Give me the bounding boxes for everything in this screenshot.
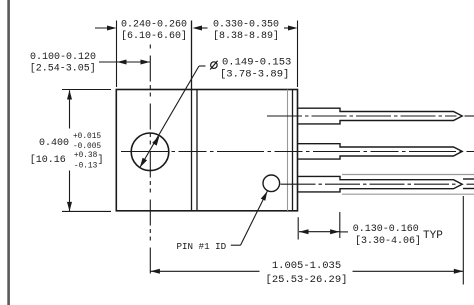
svg-text:-0.13: -0.13 (74, 162, 98, 170)
dim 0.100-0.120 dimension line and arrows (99, 60, 150, 65)
svg-text:0.240-0.260: 0.240-0.260 (121, 20, 187, 31)
lead 3 (bottom) outline (298, 176, 463, 192)
dim 0.400 extension line bottom (62, 210, 111, 212)
dim text 0.240-0.260 (121, 20, 187, 43)
svg-text:[6.10-6.60]: [6.10-6.60] (121, 30, 187, 42)
svg-text:TYP: TYP (423, 230, 443, 242)
body outline (TO-220 package) (116, 90, 297, 211)
svg-text:1.005-1.035: 1.005-1.035 (272, 260, 341, 272)
lead 3 centerline (281, 183, 474, 185)
horizontal centerline through hole and middle lead (121, 151, 474, 153)
dim text 0.100-0.120 (30, 52, 96, 74)
body right chamfer line (grey) (287, 90, 289, 211)
svg-text:[3.30-4.06]: [3.30-4.06] (355, 235, 421, 247)
svg-text:0.100-0.120: 0.100-0.120 (30, 52, 96, 63)
dim 0.330-0.350 right arrow (284, 26, 298, 31)
svg-text:+0.38: +0.38 (74, 152, 98, 160)
tab-to-body seam line 2 (196, 90, 198, 211)
svg-text:[25.53-26.29]: [25.53-26.29] (266, 274, 348, 286)
dim 0.130-0.160 extension line right (339, 212, 341, 238)
svg-text:0.400: 0.400 (39, 138, 69, 149)
dim 1.005-1.035 dimension line with arrows (150, 269, 463, 274)
dim 0.130-0.160 dimension line with arrows and leader (299, 229, 348, 234)
pin 1 ID leader line (231, 191, 267, 245)
svg-text:[10.16: [10.16 (30, 154, 66, 166)
lead 3 uncut edge continuation right of tip (463, 179, 474, 189)
svg-text:0.149-0.153: 0.149-0.153 (222, 56, 291, 68)
diameter symbol (210, 61, 217, 70)
page border left edge (7, 0, 10, 305)
dim 0.400 dimension line with arrows (67, 90, 72, 211)
svg-text:[2.54-3.05]: [2.54-3.05] (30, 63, 96, 75)
dim 0.240-0.260 extension line left (116, 21, 118, 88)
lead 2 (middle) outline (298, 144, 463, 159)
lead 1 (top) outline (298, 108, 463, 124)
tab-to-body seam line 1 (191, 21, 193, 211)
dim text diameter 0.149-0.153 (220, 56, 291, 80)
dim 0.330-0.350 extension line right (297, 21, 299, 88)
hole diameter leader line (140, 66, 206, 168)
body right inner edge line (292, 90, 294, 211)
pin 1 ID circle (263, 175, 280, 192)
svg-text:-0.005: -0.005 (73, 143, 101, 151)
svg-text:PIN #1 ID: PIN #1 ID (177, 241, 227, 252)
dim 0.400 extension line top (62, 89, 111, 91)
dim 0.130-0.160 extension line left (297, 217, 299, 239)
lead 1 centerline (267, 115, 474, 117)
dim 0.240-0.260 right arrow (193, 26, 208, 31)
dim text 0.400 with tolerances (30, 133, 104, 171)
lead 3 phantom uncut outline (grey) (342, 175, 474, 195)
dim 1.005-1.035 extension line right (462, 196, 464, 285)
svg-text:[3.78-3.89]: [3.78-3.89] (220, 68, 289, 80)
svg-text:0.130-0.160: 0.130-0.160 (353, 224, 419, 235)
dim 0.240-0.260 left arrow (95, 26, 117, 31)
label PIN #1 ID (177, 241, 227, 252)
svg-text:+0.015: +0.015 (73, 133, 101, 141)
dim text 0.130-0.160 TYP (353, 224, 443, 247)
hole vertical centerline (149, 45, 151, 277)
dim text 1.005-1.035 (266, 260, 348, 286)
dim text 0.330-0.350 (213, 20, 279, 43)
mounting hole (131, 133, 169, 171)
svg-text:0.330-0.350: 0.330-0.350 (213, 20, 279, 31)
svg-text:]: ] (98, 154, 104, 166)
svg-text:[8.38-8.89]: [8.38-8.89] (213, 30, 279, 42)
